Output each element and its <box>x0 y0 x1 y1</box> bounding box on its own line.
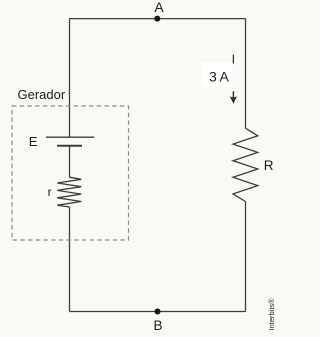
node A <box>154 16 160 22</box>
svg-text:Interbits®: Interbits® <box>267 298 276 331</box>
svg-text:B: B <box>153 318 162 333</box>
wire right lower <box>245 202 247 312</box>
label 3 A background <box>202 62 233 87</box>
svg-text:3 A: 3 A <box>209 69 230 85</box>
node B <box>155 309 161 315</box>
wire right upper <box>245 19 247 129</box>
resistor R zigzag <box>233 128 258 201</box>
svg-text:I: I <box>232 53 235 67</box>
current arrow <box>232 91 234 98</box>
battery E long plate <box>46 136 94 138</box>
svg-text:r: r <box>48 185 52 199</box>
wire top A <box>70 18 246 20</box>
svg-text:Gerador: Gerador <box>18 87 66 102</box>
generator dashed box <box>12 106 129 240</box>
wire left mid <box>69 146 71 178</box>
wire left lower <box>69 207 71 312</box>
resistor r zigzag <box>57 177 81 207</box>
svg-text:R: R <box>264 158 274 173</box>
battery E short plate <box>57 145 82 147</box>
wire left upper <box>69 19 71 138</box>
svg-text:E: E <box>29 134 38 149</box>
svg-text:A: A <box>154 0 164 15</box>
wire bottom B <box>70 311 246 313</box>
